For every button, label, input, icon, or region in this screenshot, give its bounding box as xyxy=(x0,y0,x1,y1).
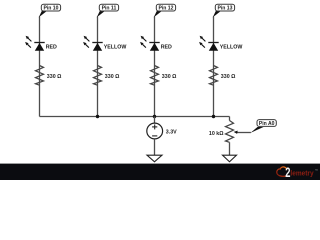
label YELLOW on Pin 13 xyxy=(220,45,243,51)
svg-text:lemetry: lemetry xyxy=(290,169,314,178)
value label 330 ohm on Pin 12 xyxy=(162,74,177,80)
pin label Pin 11 xyxy=(97,4,119,17)
voltage source 3.3V xyxy=(147,123,163,139)
wire branch Pin 13 vertical xyxy=(213,17,215,117)
value label 330 ohm on Pin 11 xyxy=(105,74,120,80)
svg-text:10 kΩ: 10 kΩ xyxy=(209,131,224,137)
wire ground rail horizontal xyxy=(40,116,230,118)
label YELLOW on Pin 11 xyxy=(104,45,127,51)
svg-text:Pin 12: Pin 12 xyxy=(158,6,173,12)
value label 330 ohm on Pin 10 xyxy=(47,74,62,80)
wire rail to voltage source xyxy=(154,117,156,124)
svg-text:RED: RED xyxy=(46,45,57,51)
LED RED on Pin 10 xyxy=(25,36,45,51)
label RED on Pin 10 xyxy=(46,45,57,51)
LED RED on Pin 12 xyxy=(140,36,160,51)
wire branch Pin 10 vertical xyxy=(39,17,41,117)
LED YELLOW on Pin 13 xyxy=(199,36,219,51)
value label 330 ohm on Pin 13 xyxy=(221,74,236,80)
svg-text:Pin 11: Pin 11 xyxy=(102,6,117,12)
value label 10 kohm xyxy=(209,131,224,137)
resistor 330 ohm on Pin 10 xyxy=(36,66,44,86)
wire branch Pin 11 vertical xyxy=(97,17,99,117)
resistor 330 ohm on Pin 12 xyxy=(151,66,159,86)
wire branch Pin 12 vertical xyxy=(154,17,156,117)
wire voltage source to ground xyxy=(154,139,156,155)
svg-text:Pin 10: Pin 10 xyxy=(43,6,58,12)
junction node branch 4 / rail xyxy=(212,115,215,118)
wire rail corner down to potentiometer xyxy=(229,117,231,121)
potentiometer 10k body xyxy=(226,121,234,143)
svg-text:330 Ω: 330 Ω xyxy=(221,74,236,80)
footer black bar xyxy=(0,164,320,180)
resistor 330 ohm on Pin 11 xyxy=(94,66,102,86)
label RED on Pin 12 xyxy=(161,45,172,51)
svg-text:™: ™ xyxy=(315,169,318,173)
pin label Pin A0 xyxy=(250,120,276,133)
junction node branch 2 / rail xyxy=(96,115,99,118)
pin label Pin 10 xyxy=(39,4,61,17)
pin label Pin 13 xyxy=(213,4,235,17)
resistor 330 ohm on Pin 13 xyxy=(210,66,218,86)
svg-text:YELLOW: YELLOW xyxy=(220,45,243,51)
junction node branch 3 / rail xyxy=(153,115,156,118)
svg-text:YELLOW: YELLOW xyxy=(104,45,127,51)
logo 2lemetry cloud swirl xyxy=(277,167,287,176)
ground symbol under potentiometer xyxy=(223,155,237,162)
svg-text:330 Ω: 330 Ω xyxy=(105,74,120,80)
logo text 2lemetry xyxy=(285,165,318,180)
svg-text:330 Ω: 330 Ω xyxy=(47,74,62,80)
svg-text:Pin A0: Pin A0 xyxy=(259,121,275,127)
ground symbol under voltage source xyxy=(147,155,162,162)
svg-text:RED: RED xyxy=(161,45,172,51)
pin label Pin 12 xyxy=(154,4,176,17)
svg-text:3.3V: 3.3V xyxy=(166,129,177,135)
wire potentiometer to ground xyxy=(229,142,231,155)
value label 3.3V xyxy=(166,129,177,135)
LED YELLOW on Pin 11 xyxy=(83,36,103,51)
svg-text:330 Ω: 330 Ω xyxy=(162,74,177,80)
potentiometer wiper arrow xyxy=(234,131,251,134)
svg-text:Pin 13: Pin 13 xyxy=(217,6,232,12)
